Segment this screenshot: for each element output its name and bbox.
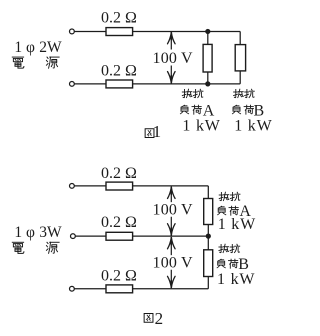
svg-text:1φ2W: 1φ2W xyxy=(14,39,62,56)
svg-text:1 kW: 1 kW xyxy=(182,117,220,134)
svg-text:0.2 Ω: 0.2 Ω xyxy=(101,165,137,182)
svg-text:0.2 Ω: 0.2 Ω xyxy=(101,62,137,79)
svg-text:1 kW: 1 kW xyxy=(218,216,256,233)
svg-text:1 kW: 1 kW xyxy=(234,117,272,134)
svg-text:1 kW: 1 kW xyxy=(217,271,255,288)
svg-text:0.2 Ω: 0.2 Ω xyxy=(101,10,137,27)
svg-text:1φ3W: 1φ3W xyxy=(14,224,62,241)
svg-text:0.2 Ω: 0.2 Ω xyxy=(101,267,137,284)
svg-text:100 V: 100 V xyxy=(153,50,194,67)
svg-text:0.2 Ω: 0.2 Ω xyxy=(101,214,137,231)
svg-text:100 V: 100 V xyxy=(153,255,194,272)
svg-text:100 V: 100 V xyxy=(153,202,194,219)
svg-text:1: 1 xyxy=(153,122,162,141)
svg-text:2: 2 xyxy=(155,309,164,328)
